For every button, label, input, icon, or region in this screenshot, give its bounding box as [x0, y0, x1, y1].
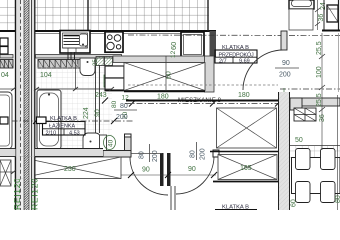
wardrobe X-box hall lower — [213, 155, 280, 182]
left door arc — [130, 157, 168, 195]
fridge — [181, 32, 204, 57]
dim line doors — [100, 174, 216, 176]
svg-text:12: 12 — [170, 50, 177, 58]
svg-text:25: 25 — [93, 59, 99, 66]
hall cabinet B — [105, 78, 124, 90]
bathtub — [37, 90, 61, 149]
svg-text:4,53: 4,53 — [69, 130, 80, 136]
entry door wall upper — [281, 31, 287, 50]
bathroom floor — [36, 64, 112, 148]
svg-text:200: 200 — [152, 150, 159, 162]
svg-text:REI120: REI120 — [12, 177, 22, 210]
dim tick corridor left — [102, 98, 108, 104]
chair bottom-left — [296, 182, 311, 203]
bathroom room table — [43, 116, 86, 136]
svg-text:243: 243 — [95, 92, 107, 99]
washbasin — [80, 58, 95, 76]
wall kitchen/hall divider — [210, 31, 217, 57]
svg-text:80: 80 — [190, 150, 197, 158]
svg-text:80: 80 — [335, 195, 340, 203]
top right dim — [315, 0, 327, 30]
wall patch over lintel box — [16, 157, 35, 179]
door leaf bars — [160, 153, 164, 186]
svg-text:9,69: 9,69 — [239, 58, 250, 64]
door label 80/200 right — [190, 142, 207, 160]
svg-text:200: 200 — [279, 72, 291, 79]
top right sink neighbor — [289, 0, 314, 30]
door jamb cap — [125, 134, 132, 152]
right door jamb — [213, 150, 219, 157]
lintel X-box bottom left — [19, 157, 121, 179]
svg-text:100: 100 — [316, 66, 323, 78]
centerline top right — [128, 34, 340, 37]
svg-text:180: 180 — [238, 92, 250, 99]
balcony tile floor — [0, 0, 216, 31]
wall right of corridor bottom — [171, 186, 175, 210]
chair bottom-right — [321, 182, 336, 203]
centerline right — [280, 88, 340, 90]
right door arc — [176, 156, 214, 194]
svg-text:90: 90 — [188, 166, 196, 173]
right dim chain — [316, 33, 325, 150]
main wall right vertical — [279, 92, 290, 210]
bathtub neighbor left — [0, 92, 12, 149]
towel radiator bathroom — [37, 117, 47, 124]
hall cabinet A — [105, 66, 124, 78]
toilet — [83, 133, 107, 154]
entry door label 90/200 — [275, 60, 299, 79]
svg-text:50: 50 — [295, 137, 303, 144]
dining table — [292, 158, 340, 194]
bottom room table — [215, 205, 257, 211]
svg-text:60: 60 — [291, 199, 298, 207]
svg-text:40: 40 — [108, 139, 115, 147]
duct shaft green — [96, 57, 104, 66]
kitchen sink unit — [60, 31, 90, 54]
svg-text:80: 80 — [139, 151, 146, 159]
radiator bathroom — [38, 60, 88, 69]
svg-text:REI120: REI120 — [30, 177, 40, 210]
chair top-right — [321, 149, 336, 170]
dim line left — [0, 87, 16, 91]
bathroom right wall — [96, 65, 100, 133]
dim arrow bottom left — [0, 170, 16, 174]
right boundary line — [338, 33, 340, 92]
corridor top bold wall — [126, 100, 278, 102]
hall room table — [215, 45, 257, 64]
chair top-left — [296, 149, 311, 170]
external wall left (vertical) — [16, 0, 35, 210]
hall wall L-shape — [103, 137, 131, 157]
corridor top wall — [128, 84, 278, 86]
kitchen wardrobe X-box — [124, 63, 205, 92]
svg-text:90: 90 — [95, 109, 102, 117]
svg-text:04: 04 — [1, 72, 9, 79]
svg-text:60: 60 — [166, 71, 173, 79]
svg-text:80: 80 — [120, 103, 128, 110]
svg-text:90: 90 — [282, 60, 290, 67]
svg-text:60: 60 — [169, 42, 178, 50]
svg-text:2/10: 2/10 — [46, 130, 57, 136]
radiator right room — [294, 108, 316, 121]
top right walls — [322, 0, 340, 31]
top right washer — [327, 5, 338, 22]
svg-text:36: 36 — [319, 114, 326, 122]
centerline wall right vertical — [283, 88, 285, 210]
pipes — [68, 52, 75, 60]
svg-text:25,5: 25,5 — [316, 93, 323, 107]
svg-text:80: 80 — [111, 100, 118, 108]
wall segment right of X-box — [205, 56, 215, 92]
stove cooktop — [105, 32, 123, 52]
right room top wall — [290, 98, 340, 110]
dim line right edge — [337, 95, 339, 210]
kitchen floor tiles right — [290, 146, 340, 158]
partition band kitchen/corridor — [113, 56, 205, 63]
dim line bath — [34, 87, 114, 91]
wall band lower left — [0, 149, 103, 157]
door label 80/200 left — [139, 144, 160, 162]
corridor centerline — [125, 103, 280, 105]
dim line kitchen — [165, 56, 167, 91]
svg-text:200: 200 — [200, 148, 207, 160]
duct shaft green b — [105, 57, 113, 66]
svg-text:200: 200 — [116, 114, 128, 121]
duct shaft green 2 — [104, 75, 112, 87]
svg-text:224: 224 — [83, 107, 90, 119]
dim 40 circled — [104, 136, 116, 150]
partition wall kitchen/bath — [0, 55, 122, 59]
kitchen counter back edge — [36, 33, 182, 35]
svg-text:90: 90 — [142, 167, 150, 174]
corridor doors bottom — [130, 150, 219, 195]
wardrobe X-box hall upper — [217, 108, 277, 148]
small box left — [0, 117, 8, 124]
svg-text:180: 180 — [157, 94, 169, 101]
radiator neighbor left — [0, 60, 13, 69]
dim line vertical bathroom — [75, 60, 77, 89]
svg-text:104: 104 — [40, 72, 52, 79]
entry door arc — [243, 50, 283, 90]
wall under hall — [210, 151, 280, 153]
svg-text:2/7: 2/7 — [219, 58, 227, 64]
centerline left — [0, 120, 134, 122]
svg-text:25,5: 25,5 — [316, 41, 323, 55]
left strip neighbor fixtures — [0, 38, 8, 54]
door label 80/200 upper — [114, 95, 137, 122]
svg-text:230: 230 — [64, 166, 76, 173]
X-box far bottom left — [0, 160, 11, 186]
svg-text:165: 165 — [240, 165, 252, 172]
